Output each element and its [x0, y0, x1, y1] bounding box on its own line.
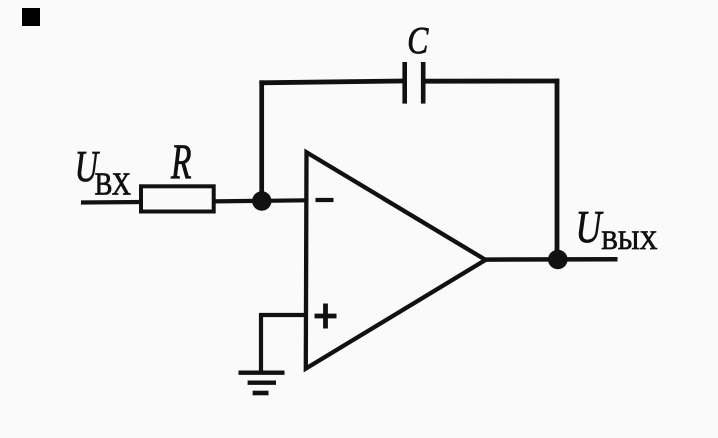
node junction output [548, 250, 568, 270]
wire to ground [259, 314, 263, 373]
wire non-inverting input [259, 313, 306, 317]
capacitor C left plate [402, 62, 407, 104]
capacitor C right plate [421, 62, 426, 104]
wire feedback right vertical [555, 79, 560, 256]
wire feedback top right segment [423, 79, 559, 84]
wire input left segment [81, 200, 143, 205]
op-amp non-inverting input plus sign horizontal [315, 314, 337, 319]
op-amp inverting input minus sign [316, 198, 334, 202]
svg-text:ВЫХ: ВЫХ [601, 225, 658, 255]
svg-text:C: C [407, 19, 429, 61]
ground bar 1 [239, 371, 285, 375]
wire op-amp output [485, 257, 618, 262]
op-amp non-inverting input plus sign vertical [323, 304, 328, 329]
op-amp U1 triangle [306, 152, 486, 368]
wire feedback top left segment [259, 81, 402, 83]
resistor R [141, 186, 214, 211]
svg-text:U: U [576, 201, 605, 252]
wire resistor to inverting node [214, 200, 306, 201]
node junction inverting input [252, 191, 271, 210]
wire feedback left vertical [259, 80, 264, 201]
svg-text:ВХ: ВХ [95, 167, 131, 202]
ground bar 3 [253, 391, 269, 396]
scan artifact mark top-left [22, 8, 40, 26]
ground bar 2 [248, 381, 276, 385]
svg-text:R: R [170, 135, 191, 190]
